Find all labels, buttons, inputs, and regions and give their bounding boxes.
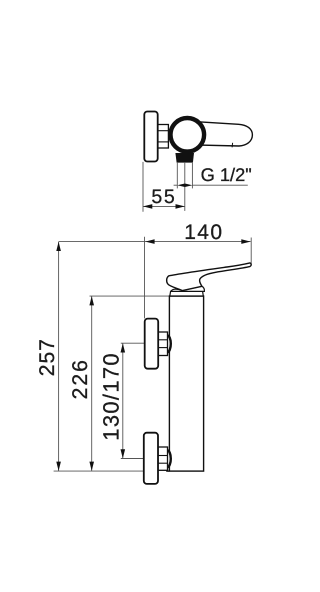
svg-text:G 1/2": G 1/2": [201, 164, 252, 185]
svg-text:257: 257: [36, 338, 59, 376]
svg-text:130/170: 130/170: [98, 352, 123, 441]
svg-text:140: 140: [184, 221, 223, 244]
svg-text:226: 226: [69, 358, 92, 399]
svg-text:55: 55: [151, 186, 176, 208]
